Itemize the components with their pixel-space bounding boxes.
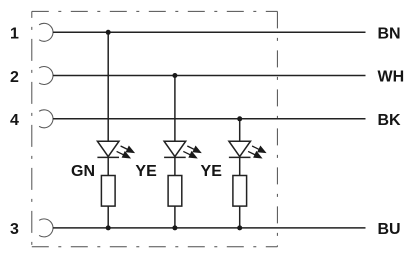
wire R2 to pin3 [174, 206, 176, 228]
node junction pin2/branch2 [172, 73, 177, 78]
svg-text:BK: BK [378, 112, 402, 129]
pin 4 socket contact [39, 110, 53, 128]
svg-text:WH: WH [378, 69, 405, 86]
branch 3 wire upper (pin4 to LED3) [239, 119, 241, 141]
wire LED1 to R1 [107, 157, 109, 175]
wire pin4 to BK [53, 118, 366, 120]
pin 2 socket contact [39, 67, 53, 85]
LED2 emission arrows [183, 146, 200, 158]
svg-text:YE: YE [135, 163, 157, 180]
node junction branch2/pin3 [172, 225, 177, 230]
svg-text:BU: BU [378, 221, 401, 238]
resistor R2 [168, 176, 182, 207]
wire R1 to pin3 [107, 206, 109, 228]
svg-text:YE: YE [201, 163, 223, 180]
wire pin1 to BN [53, 31, 366, 33]
wire LED3 to R3 [239, 157, 241, 175]
node junction branch1/pin3 [106, 225, 111, 230]
LED2 YE (triangle) [164, 141, 186, 156]
node junction branch3/pin3 [237, 225, 242, 230]
pin 3 socket contact [39, 219, 53, 237]
connector housing dashed outline [32, 11, 278, 246]
node junction pin1/branch1 [106, 30, 111, 35]
LED1 emission arrows [117, 146, 134, 158]
node junction pin4/branch3 [237, 116, 242, 121]
svg-text:1: 1 [10, 26, 19, 43]
LED3 emission arrows [248, 146, 265, 158]
LED2 cathode bar [164, 156, 186, 158]
LED1 cathode bar [97, 156, 119, 158]
svg-text:4: 4 [10, 112, 19, 129]
wire pin3 to BU [53, 227, 366, 229]
branch 2 wire upper (pin2 to LED2) [174, 76, 176, 142]
svg-text:2: 2 [10, 69, 19, 86]
wire pin2 to WH [53, 75, 366, 77]
pin 1 socket contact [39, 23, 53, 41]
wire R3 to pin3 [239, 206, 241, 228]
branch 1 wire upper (pin1 to LED1) [107, 32, 109, 141]
LED1 GN (triangle) [97, 141, 119, 156]
svg-text:GN: GN [71, 163, 95, 180]
resistor R3 [233, 176, 247, 207]
LED3 cathode bar [229, 156, 251, 158]
wire LED2 to R2 [174, 157, 176, 175]
svg-text:3: 3 [10, 221, 19, 238]
resistor R1 [101, 176, 115, 207]
svg-text:BN: BN [378, 25, 401, 42]
LED3 YE (triangle) [229, 141, 251, 156]
